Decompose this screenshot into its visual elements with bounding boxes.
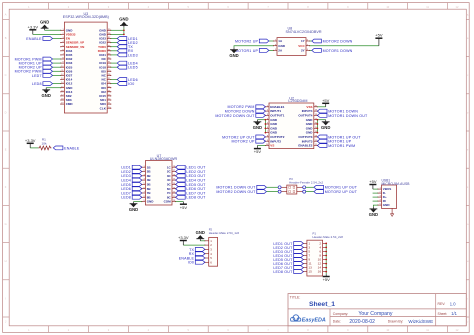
wire USB1 D+ stub [373,196,378,198]
power +3.3V at R1 [25,138,36,148]
svg-text:GND: GND [369,212,378,217]
net label ENABLE at U3 EN [26,37,52,41]
svg-text:+3.3V: +3.3V [178,235,189,240]
power +5V at U8 [375,33,383,46]
connector P3 Header-Female 2.54_2x2 [278,177,323,194]
net label LED4 OUT at P1 [273,254,303,258]
net label MOTOR2 UP OUT [314,190,358,194]
svg-text:1.0: 1.0 [450,301,456,306]
net label LED2 OUT at P1 [273,246,303,250]
IC U8 SN74LVC2G04DBVR dual inverter [273,27,322,56]
wire +3.3V to P2 pin2 [183,244,205,246]
net label LED7 OUT at U7 [176,191,207,195]
wire LED7 to U3 [53,74,61,76]
net label LED4 [117,61,138,65]
power +5V at P1 [323,274,331,282]
wire LED5 from U3 [111,66,117,68]
svg-text:Date:: Date: [333,320,341,324]
wire U8 VCC to +5V [310,45,379,47]
net label LED6 OUT at P1 [273,262,303,266]
svg-text:TITLE:: TITLE: [290,295,301,299]
wire LED1 from U3 [111,38,117,40]
wire +5V to USB1 VBUS [373,188,378,190]
svg-text:L293DD#M: L293DD#M [288,99,307,103]
svg-text:GND: GND [119,17,128,22]
power +3.3V top-left of U3 [28,24,39,34]
wire GND top-right of U3 [111,29,124,31]
net label LED7 at U7 [121,191,142,195]
ground GND top-left of U3 [40,20,49,31]
svg-text:MOTOR1 DOWN OUT: MOTOR1 DOWN OUT [328,114,368,118]
wire LED6 from U3 [111,79,117,81]
svg-text:IO0: IO0 [128,82,134,86]
net label LED8 OUT at P1 [273,270,303,274]
net label LED5 OUT at U7 [176,183,207,187]
svg-text:LED8 OUT: LED8 OUT [186,196,206,200]
wire U2 VS to +5V [257,145,265,147]
power +5V at USB1 [369,179,377,189]
ground GND top-right of U3 [119,17,128,28]
svg-text:E: E [5,148,7,152]
wire MOTOR2 DOWN OUT to P3 [266,191,278,193]
net label LED1 at U7 [121,165,142,169]
svg-text:LED8 OUT: LED8 OUT [273,270,293,274]
svg-text:LED8: LED8 [121,196,131,200]
svg-text:MOTOR2 DOWN: MOTOR2 DOWN [323,39,353,43]
net label TX at P2 [189,248,205,252]
net label LED5 OUT at P1 [273,258,303,262]
ground GND at U8 [229,48,238,58]
power +5V at U7 COM [180,202,188,210]
svg-text:MOTOR1 PWM: MOTOR1 PWM [328,144,355,148]
net label MOTOR2 DOWN OUT at U2 [215,114,265,118]
wire U7 GND [134,201,142,203]
net label MOTOR1 DOWN [312,49,353,53]
net label MOTOR2 UP [19,65,53,69]
svg-text:Sheet_1: Sheet_1 [309,301,335,308]
ground GND right of U2 [321,120,330,130]
svg-text:ULN2803ADWR: ULN2803ADWR [150,157,178,161]
svg-text:LED8: LED8 [32,82,42,86]
net label LED6 at U7 [121,187,142,191]
svg-text:Sheet:: Sheet: [438,312,448,316]
ground GND at U7 [129,202,138,212]
svg-text:+5V: +5V [369,179,377,184]
wire MOTOR2 UP to U3 [53,66,61,68]
svg-text:+5V: +5V [323,277,331,282]
svg-text:1Y: 1Y [301,39,305,43]
net label LED6 [117,78,138,82]
connector P2 Header-Male 2.54_1x6 [204,227,239,266]
connector USB1 MICRO-5M-AUSB [377,179,410,217]
svg-text:MOTOR2 DOWN OUT: MOTOR2 DOWN OUT [216,190,256,194]
wire GND to U3 pin15 [46,87,61,89]
svg-text:+5V: +5V [180,205,188,210]
net label LED8 OUT at U7 [176,195,207,199]
svg-text:D: D [5,110,7,114]
wire MOTOR1 DOWN OUT to P3 [266,186,278,188]
wire LED4 from U3 [111,62,117,64]
net label RX at P2 [189,252,205,256]
svg-text:+5V: +5V [322,98,330,103]
net label MOTOR2 DOWN at U2 [225,109,266,113]
wire P1 +5V bus [325,243,327,274]
net label MOTOR1 DOWN at U2 [317,109,358,113]
net label LED2 at U7 [121,170,142,174]
wire LED8 to U3 IO12 [53,83,61,85]
svg-text:MOTOR2 UP: MOTOR2 UP [231,140,255,144]
net label MOTOR1 PWM at U2 [317,144,355,148]
net label LED5 at U7 [121,183,142,187]
svg-text:G: G [467,224,469,226]
wire MOTOR2 UP to U8 1A [269,40,274,42]
net label LED1 [117,37,138,41]
wire TX from U3 [111,46,117,48]
wire MOTOR1 PWM to U3 [53,58,61,60]
svg-text:2Y: 2Y [301,49,305,53]
svg-text:Your Company: Your Company [358,311,393,317]
svg-text:16: 16 [318,270,322,274]
ground GND bottom-left of U3 [42,88,51,98]
net label MOTOR2 DOWN OUT [216,190,266,194]
svg-text:J: J [467,321,468,323]
net label MOTOR1 UP at U2 [317,139,351,143]
svg-text:REV:: REV: [438,302,446,306]
svg-text:+5V: +5V [254,149,262,154]
connector P1 Header-Male 2.54_2x8 [303,231,344,276]
wire USB1 D- stub [373,192,378,194]
svg-text:VS: VS [270,144,274,148]
net label LED7 [32,74,53,78]
wire U8 GND [234,46,273,48]
ground GND at P2 [196,230,205,241]
net label MOTOR2 PWM [15,69,53,73]
net label IO0 [117,82,134,86]
net label TX [117,45,133,49]
wire GND to P2 pin1 [200,240,205,242]
svg-text:GND: GND [42,93,51,98]
svg-text:WizKidSWE: WizKidSWE [408,319,433,324]
net label MOTOR1 UP OUT [314,185,358,189]
wire MOTOR2 PWM to U3 [53,70,61,72]
net label MOTOR2 UP [235,39,269,43]
svg-text:GND: GND [196,230,205,235]
wire U2 right GND bus [316,120,318,133]
svg-text:SN74LVC2G04DBVR: SN74LVC2G04DBVR [286,30,322,34]
wire U8 2Y to MOTOR1 DOWN [310,49,312,51]
svg-text:ESP32-WROOM-32D(8MB): ESP32-WROOM-32D(8MB) [63,15,109,19]
power +5V below-left of U2 [254,146,262,155]
power +3.3V at P2 [178,235,189,245]
svg-text:+5V: +5V [375,33,383,38]
wire U8 1Y to MOTOR2 DOWN [310,40,312,42]
svg-text:ENABLE: ENABLE [26,37,42,41]
net label ENABLE at P2 [179,256,205,260]
svg-text:GND: GND [278,44,286,48]
wire +3.3V to R1 [30,147,38,149]
IC U3 ESP32-WROOM-32D(8MB) [60,12,111,113]
svg-text:GND: GND [129,207,138,212]
net label MOTOR2 UP OUT at U2 [222,135,265,139]
svg-text:CMD: CMD [66,102,74,106]
net label MOTOR1 UP [235,49,269,53]
svg-text:LED7: LED7 [32,74,42,78]
net label LED5 [117,65,138,69]
net label RX [117,49,134,53]
ground GND at USB1 [369,207,378,217]
net label MOTOR1 UP [19,61,53,65]
ground GND left of U2 [253,120,262,130]
IC U7 ULN2803ADWR darlington array [141,154,177,205]
wire USB1 GND [373,205,378,207]
wire USB1 ID stub [373,200,378,202]
svg-text:H: H [5,259,7,263]
wire U7 COM to +5V [176,201,184,203]
svg-text:EasyEDA: EasyEDA [302,318,326,324]
net label MOTOR1 PWM [15,57,53,61]
svg-text:C: C [5,73,7,77]
wire MOTOR1 UP to U3 [53,62,61,64]
net label LED1 OUT at U7 [176,165,207,169]
svg-text:G: G [5,222,7,226]
net label LED4 at U7 [121,178,142,182]
svg-text:COM: COM [164,200,172,204]
svg-text:MOTOR2 UP OUT: MOTOR2 UP OUT [325,190,358,194]
net label MOTOR2 DOWN [312,39,353,43]
net label MOTOR2 UP at U2 [231,139,265,143]
svg-text:ENABLE2: ENABLE2 [298,144,312,148]
EasyEDA logo [289,315,326,324]
net label LED2 OUT at U7 [176,170,207,174]
net label IO0 at P2 [188,260,205,264]
wire GND to U3 pin1 [45,29,61,31]
svg-text:1/1: 1/1 [451,311,457,316]
svg-text:Drawn By:: Drawn By: [388,320,404,324]
net label LED3 OUT at U7 [176,174,207,178]
wire MOTOR1 UP to U8 2A [269,49,274,51]
svg-text:IO0: IO0 [188,261,194,265]
svg-text:Company:: Company: [333,312,349,316]
svg-text:LED5: LED5 [128,66,138,70]
net label LED4 OUT at U7 [176,178,207,182]
net label LED6 OUT at U7 [176,187,207,191]
svg-text:MICRO-5M-AUSB: MICRO-5M-AUSB [382,182,411,186]
svg-text:GND: GND [321,125,330,130]
IC U2 L293DD#M motor driver [265,96,318,148]
wire IO0 from U3 [111,83,117,85]
net label MOTOR1 DOWN OUT at U2 [317,114,368,118]
svg-text:B: B [5,36,7,40]
svg-text:MOTOR2 UP: MOTOR2 UP [235,39,259,43]
net label MOTOR2 PWM at U2 [228,105,266,109]
net label LED3 [117,53,138,57]
net label LED2 [117,41,138,45]
wire LED2 from U3 [111,42,117,44]
net label ENABLE at R1 [53,146,80,150]
svg-text:Header-Female 2.54_2x2: Header-Female 2.54_2x2 [289,181,323,185]
wire MOTOR2 UP OUT from P3 [306,191,314,193]
net label LED8 at U7 [121,195,142,199]
wire RX from U3 [111,50,117,52]
svg-text:VCC: VCC [298,44,305,48]
svg-text:10k: 10k [42,142,47,146]
svg-text:GND: GND [229,53,238,58]
svg-text:ENABLE: ENABLE [64,146,80,150]
power +5V top-right of U2 [322,98,330,107]
net label LED8 [32,82,53,86]
wire U2 left GND bus [264,120,266,133]
svg-text:+3.3V: +3.3V [25,138,36,143]
svg-text:+3.3V: +3.3V [28,24,39,29]
net label MOTOR1 UP OUT at U2 [317,135,361,139]
wire +3.3V to U3 VDD33 [33,33,61,35]
svg-text:CLK: CLK [100,106,107,110]
svg-text:GND: GND [147,200,155,204]
svg-text:A: A [5,12,7,16]
wire U2 VSS to +5V [317,106,325,108]
svg-text:Header-Male 2.54_1x6: Header-Male 2.54_1x6 [209,231,240,235]
net label LED1 OUT at P1 [273,242,303,246]
svg-text:GND: GND [40,20,49,25]
svg-text:2020-08-02: 2020-08-02 [349,319,375,325]
svg-text:LED3: LED3 [128,53,138,57]
net label LED7 OUT at P1 [273,266,303,270]
svg-text:MOTOR1 DOWN: MOTOR1 DOWN [323,49,353,53]
net label LED3 at U7 [121,174,142,178]
net label MOTOR1 DOWN OUT [216,185,266,189]
wire MOTOR1 UP OUT from P3 [306,186,314,188]
svg-text:GND: GND [253,125,262,130]
svg-text:GND: GND [383,203,391,207]
wire LED3 from U3 [111,54,117,56]
svg-text:15: 15 [308,270,312,274]
net label LED3 OUT at P1 [273,250,303,254]
svg-text:MOTOR2 DOWN OUT: MOTOR2 DOWN OUT [215,114,255,118]
svg-text:Header-Male 2.54_2x8: Header-Male 2.54_2x8 [313,235,344,239]
wire ENABLE to U3 EN [53,38,61,40]
resistor R1 10k [38,138,51,150]
title block [288,294,466,326]
